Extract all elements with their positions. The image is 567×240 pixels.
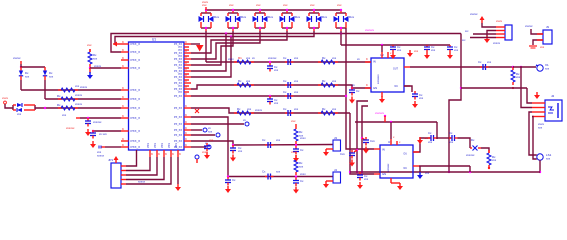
svg-text:GN: GN <box>382 172 386 176</box>
svg-text:VSS: VSS <box>154 143 157 148</box>
svg-text:xx xxx: xx xxx <box>99 132 107 136</box>
svg-text:VSS: VSS <box>161 143 164 148</box>
svg-text:Rx: Rx <box>237 107 241 111</box>
svg-text:J3: J3 <box>334 136 337 140</box>
svg-text:xxxxx: xxxxx <box>80 85 88 89</box>
svg-text:VSS: VSS <box>147 143 150 148</box>
svg-text:xxxxx: xxxxx <box>13 56 21 60</box>
svg-text:Cxx: Cxx <box>370 139 375 143</box>
svg-text:xxx: xxx <box>454 48 459 52</box>
svg-text:xxxxxx: xxxxxx <box>268 56 277 60</box>
svg-text:PXX_X: PXX_X <box>131 66 141 70</box>
svg-text:xxx: xxx <box>431 48 436 52</box>
svg-text:R1: R1 <box>238 56 242 60</box>
svg-text:xxx: xxx <box>294 56 299 60</box>
svg-text:xxxx: xxxx <box>300 172 306 176</box>
svg-text:xxxxx: xxxxx <box>470 12 478 16</box>
svg-text:Cx: Cx <box>478 60 482 64</box>
svg-text:Rx: Rx <box>322 56 326 60</box>
svg-text:xxx: xxx <box>276 170 281 174</box>
svg-text:Dxx: Dxx <box>268 15 274 19</box>
svg-text:PXX_X: PXX_X <box>131 97 141 101</box>
svg-text:xxxxx: xxxxx <box>94 64 102 68</box>
svg-text:PX_XX: PX_XX <box>174 95 182 98</box>
svg-text:xxx: xxx <box>229 3 234 7</box>
svg-text:xxx: xxx <box>546 157 551 161</box>
svg-text:Rx: Rx <box>322 107 326 111</box>
svg-text:xxx: xxx <box>428 140 433 144</box>
svg-text:xxxxx: xxxxx <box>493 41 501 45</box>
svg-text:Cx: Cx <box>356 89 360 93</box>
svg-text:PX_XX: PX_XX <box>174 140 182 143</box>
svg-text:PXX_X: PXX_X <box>131 42 141 46</box>
svg-text:xxx: xxx <box>545 67 550 71</box>
svg-text:VSS: VSS <box>168 143 171 148</box>
svg-text:xxx: xxx <box>93 57 98 61</box>
svg-text:Cx: Cx <box>428 131 432 135</box>
svg-text:xxx: xxx <box>202 150 207 154</box>
svg-text:xxx: xxx <box>246 79 251 83</box>
svg-text:Cxx: Cxx <box>340 152 345 156</box>
svg-text:xxx: xxx <box>487 60 492 64</box>
svg-text:xxx: xxx <box>419 96 424 100</box>
svg-text:xxx: xxx <box>364 177 369 181</box>
svg-text:J2: J2 <box>551 94 555 98</box>
svg-text:xxx: xxx <box>538 126 543 130</box>
svg-text:PX: PX <box>179 48 183 52</box>
svg-text:PX_XX: PX_XX <box>174 107 182 110</box>
svg-text:OU: OU <box>403 153 407 156</box>
svg-text:PXX_X: PXX_X <box>131 106 141 110</box>
svg-text:xxx: xxx <box>276 138 281 142</box>
svg-text:JP1: JP1 <box>108 158 114 162</box>
svg-text:xxx: xxx <box>294 90 299 94</box>
svg-text:PX: PX <box>179 66 183 70</box>
svg-text:Dxx: Dxx <box>241 15 247 19</box>
svg-text:J9: J9 <box>546 25 549 29</box>
svg-text:Dxx: Dxx <box>214 15 220 19</box>
svg-text:xxx: xxx <box>283 3 288 7</box>
svg-text:Rx: Rx <box>57 94 61 98</box>
svg-text:xxx: xxx <box>397 48 402 52</box>
svg-text:PX: PX <box>179 90 183 94</box>
svg-text:PX: PX <box>179 54 183 58</box>
svg-text:xxx: xxx <box>337 3 342 7</box>
svg-text:xxx: xxx <box>17 112 22 116</box>
svg-text:xxx: xxx <box>25 75 30 79</box>
svg-text:PX: PX <box>179 60 183 64</box>
svg-text:OUT: OUT <box>393 68 399 71</box>
svg-text:PX: PX <box>179 72 183 76</box>
svg-text:xxxxxxxx: xxxxxxxx <box>377 74 380 84</box>
svg-text:PXX_X: PXX_X <box>131 129 141 133</box>
svg-text:VSS: VSS <box>175 143 178 148</box>
svg-text:xxxxxx: xxxxxx <box>93 120 102 124</box>
svg-text:IN: IN <box>373 60 376 64</box>
svg-text:Dxx: Dxx <box>349 15 355 19</box>
svg-text:xxxxxxx: xxxxxxx <box>387 163 390 172</box>
svg-text:xxxx: xxxx <box>496 19 503 23</box>
svg-text:Dx: Dx <box>471 138 475 142</box>
svg-text:xxx: xxx <box>492 158 497 162</box>
svg-text:Cx: Cx <box>300 148 304 152</box>
svg-text:PX_XX: PX_XX <box>174 134 182 137</box>
svg-text:xxx: xxx <box>274 68 279 72</box>
svg-text:Dxx: Dxx <box>295 15 301 19</box>
svg-text:Cx: Cx <box>449 131 453 135</box>
svg-text:xxx: xxx <box>516 75 521 79</box>
svg-text:xxxxx: xxxxx <box>75 102 83 106</box>
svg-text:xxx: xxx <box>310 3 315 7</box>
svg-text:xxx: xxx <box>256 3 261 7</box>
svg-text:Cx: Cx <box>262 170 266 174</box>
svg-text:xxxx: xxxx <box>2 96 9 100</box>
svg-text:PXX_X: PXX_X <box>131 145 141 149</box>
svg-text:U1: U1 <box>152 38 156 42</box>
svg-text:Cx: Cx <box>283 56 287 60</box>
svg-text:xxx: xxx <box>208 130 213 134</box>
svg-text:xxx: xxx <box>414 49 419 53</box>
svg-text:xxxxxx: xxxxxx <box>66 126 75 130</box>
svg-text:PX_XX: PX_XX <box>174 129 182 132</box>
svg-text:xxx: xxx <box>299 165 304 169</box>
svg-text:xxx: xxx <box>294 79 299 83</box>
svg-text:PX_XX: PX_XX <box>174 123 182 126</box>
svg-text:PXX_X: PXX_X <box>131 58 141 62</box>
svg-text:Rx: Rx <box>238 79 242 83</box>
svg-text:xxx: xxx <box>291 150 296 154</box>
svg-text:PX: PX <box>179 78 183 82</box>
svg-text:xxxx: xxxx <box>228 57 234 61</box>
svg-text:xxxxxx: xxxxxx <box>466 153 475 157</box>
svg-text:xxx: xxx <box>332 79 337 83</box>
svg-text:xxx: xxx <box>87 43 92 47</box>
svg-text:xxx: xxx <box>332 107 337 111</box>
svg-text:xxx: xxx <box>274 101 279 105</box>
svg-text:xxxxx: xxxxx <box>97 154 105 158</box>
svg-text:Cx: Cx <box>283 79 287 83</box>
svg-text:xxxxx: xxxxx <box>138 180 146 184</box>
svg-text:xxx: xxx <box>294 107 299 111</box>
svg-text:PXX_X: PXX_X <box>131 116 141 120</box>
svg-text:xxx: xxx <box>425 171 430 175</box>
svg-text:xxx: xxx <box>238 149 243 153</box>
svg-text:Cx: Cx <box>283 107 287 111</box>
svg-text:xxx: xxx <box>49 75 54 79</box>
svg-text:Dxx: Dxx <box>322 15 328 19</box>
svg-text:PXX_X: PXX_X <box>131 50 141 54</box>
svg-text:PXX_X: PXX_X <box>131 139 141 143</box>
svg-text:NC: NC <box>404 167 408 170</box>
svg-text:xxx: xxx <box>291 119 296 123</box>
svg-text:J4: J4 <box>334 168 337 172</box>
svg-text:xxxx: xxxx <box>202 0 209 4</box>
svg-text:xxxxxx: xxxxxx <box>375 111 385 115</box>
svg-text:xxxxx: xxxxx <box>75 93 83 97</box>
svg-text:xxx: xxx <box>332 56 337 60</box>
svg-text:xxxx: xxxx <box>300 136 306 140</box>
svg-text:PX: PX <box>179 84 183 88</box>
svg-text:xxxxx: xxxxx <box>525 24 533 28</box>
svg-text:xxx: xxx <box>209 138 214 142</box>
svg-text:PX_XX: PX_XX <box>174 116 182 119</box>
svg-text:xxxxx: xxxxx <box>255 108 263 112</box>
svg-text:GN: GN <box>373 86 377 90</box>
svg-text:Cx: Cx <box>262 138 266 142</box>
svg-text:PXX_X: PXX_X <box>131 88 141 92</box>
svg-text:xxx: xxx <box>424 136 429 140</box>
svg-text:Cx: Cx <box>232 178 236 182</box>
svg-text:xxx: xxx <box>449 140 454 144</box>
svg-text:xxx: xxx <box>247 107 252 111</box>
svg-text:xxx: xxx <box>540 45 545 49</box>
svg-text:Cx: Cx <box>283 90 287 94</box>
svg-text:xxx: xxx <box>62 113 67 117</box>
svg-text:NC: NC <box>395 85 399 88</box>
svg-text:xxx: xxx <box>246 56 251 60</box>
svg-text:Rx: Rx <box>57 103 61 107</box>
svg-text:xxxxxx: xxxxxx <box>365 28 375 32</box>
svg-text:Rx: Rx <box>322 79 326 83</box>
svg-text:Cx: Cx <box>300 179 304 183</box>
svg-text:IN: IN <box>382 148 385 152</box>
